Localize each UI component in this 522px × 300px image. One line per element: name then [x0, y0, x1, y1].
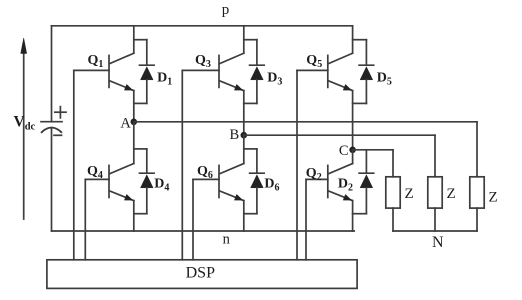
- svg-text:D2: D2: [338, 177, 353, 194]
- capacitor C top plate: [41, 121, 62, 123]
- svg-text:Z: Z: [489, 190, 498, 206]
- diode D5 triangle: [360, 67, 373, 80]
- wire Q3 gate line to DSP: [181, 70, 183, 259]
- wire D4 cathode lead: [146, 149, 148, 173]
- wire D2 anode lead: [365, 188, 367, 214]
- wire Q6 emitter to rail n: [243, 201, 245, 231]
- wire Q4 base lead: [85, 178, 109, 180]
- transistor Q5 emitter arrow: [343, 84, 351, 90]
- diode D3 cathode bar: [250, 64, 265, 66]
- wire Q6 gate line to DSP: [192, 179, 194, 259]
- transistor Q5 emitter stroke: [329, 81, 353, 91]
- capacitor plus sign vertical: [59, 107, 61, 118]
- transistor Q1 base bar: [108, 55, 110, 87]
- svg-text:Z: Z: [447, 186, 456, 202]
- diode D1 triangle: [141, 67, 154, 80]
- transistor Q5 base bar: [327, 55, 329, 87]
- node A junction dot: [131, 119, 138, 126]
- wire branch to D6: [244, 148, 257, 150]
- transistor Q4 collector stroke: [110, 164, 134, 174]
- svg-text:A: A: [120, 116, 131, 132]
- wire D6 cathode lead: [256, 149, 258, 173]
- wire D5 anode return: [353, 102, 367, 104]
- transistor Q6 emitter arrow: [234, 194, 242, 200]
- wire D3 anode lead: [256, 80, 258, 104]
- capacitor C curved bottom plate: [41, 128, 62, 133]
- wire phase A drop to load: [476, 122, 478, 177]
- wire Q1 base lead: [74, 69, 109, 71]
- transistor Q5 collector stroke: [329, 53, 353, 63]
- svg-text:p: p: [222, 2, 230, 18]
- wire phase A output: [134, 121, 477, 123]
- capacitor plus sign horizontal: [55, 111, 66, 113]
- svg-text:D5: D5: [377, 71, 392, 88]
- wire leg C drop from rail p to Q5 collector: [352, 26, 354, 53]
- svg-text:Q5: Q5: [306, 53, 322, 70]
- load Z3 (impedance): [470, 177, 484, 208]
- wire branch to D3: [244, 39, 257, 41]
- wire Q3 base lead: [182, 69, 219, 71]
- wire neutral bus N: [393, 230, 477, 232]
- load Z2 (impedance): [428, 177, 442, 208]
- wire phase B output: [244, 134, 435, 136]
- wire branch to D5: [353, 39, 367, 41]
- wire Q4 gate line to DSP: [84, 179, 86, 259]
- wire node C to Q2 collector: [352, 150, 354, 164]
- wire Q5 emitter to node C: [352, 91, 354, 150]
- transistor Q4 emitter stroke: [110, 191, 134, 200]
- transistor Q6 emitter stroke: [220, 191, 244, 200]
- diode D6 triangle: [251, 175, 264, 188]
- wire D4 anode lead: [146, 188, 148, 214]
- wire Q2 emitter to rail n: [352, 201, 354, 231]
- wire D4 anode return: [134, 213, 147, 215]
- wire Q6 base lead: [193, 178, 219, 180]
- wire Q5 gate line to DSP: [296, 70, 298, 259]
- wire left bus lower segment: [51, 128, 53, 231]
- DSP controller box: [47, 260, 357, 289]
- svg-text:D6: D6: [264, 177, 279, 194]
- wire D1 anode lead: [146, 80, 148, 104]
- wire left bus upper segment: [51, 26, 53, 122]
- transistor Q2 emitter stroke: [329, 191, 353, 200]
- wire load Z3 to neutral: [476, 208, 478, 231]
- transistor Q6 base bar: [218, 165, 220, 197]
- wire Q2 gate line to DSP: [305, 179, 307, 259]
- diode D5 cathode bar: [359, 64, 374, 66]
- diode D2 triangle: [360, 175, 373, 188]
- wire Q2 base lead: [306, 178, 328, 180]
- svg-text:Q4: Q4: [87, 164, 103, 181]
- wire D6 anode lead: [256, 188, 258, 214]
- wire node B to Q6 collector: [243, 135, 245, 163]
- transistor Q4 base bar: [108, 165, 110, 197]
- node B junction dot: [241, 132, 248, 139]
- transistor Q1 emitter stroke: [110, 81, 134, 91]
- wire branch to D4: [134, 148, 147, 150]
- wire leg A drop from rail p to Q1 collector: [133, 26, 135, 53]
- wire D5 anode lead: [365, 80, 367, 104]
- capacitor minus sign: [54, 134, 62, 136]
- wire load Z2 to neutral: [434, 208, 436, 231]
- wire leg B drop from rail p to Q3 collector: [243, 26, 245, 53]
- svg-text:Z: Z: [405, 186, 414, 202]
- wire Q4 emitter to rail n: [133, 201, 135, 231]
- wire phase C output: [353, 149, 393, 151]
- svg-text:D4: D4: [154, 177, 169, 194]
- wire phase C drop to load: [392, 150, 394, 177]
- svg-text:Q6: Q6: [197, 164, 213, 181]
- wire rail p (top DC bus): [52, 25, 353, 27]
- wire load Z1 to neutral: [392, 208, 394, 231]
- wire D1 cathode lead: [146, 40, 148, 65]
- svg-text:Q3: Q3: [195, 53, 211, 70]
- transistor Q4 emitter arrow: [124, 194, 132, 200]
- svg-text:D3: D3: [267, 71, 282, 88]
- Vdc reference arrow head: [21, 38, 27, 54]
- diode D4 cathode bar: [140, 172, 155, 174]
- transistor Q2 base bar: [327, 165, 329, 197]
- transistor Q2 emitter arrow: [343, 194, 351, 200]
- transistor Q3 emitter arrow: [234, 84, 242, 90]
- Vdc reference arrow shaft: [23, 52, 25, 219]
- node C junction dot: [349, 147, 356, 154]
- wire phase B drop to load: [434, 135, 436, 177]
- wire rail n (bottom DC bus): [52, 230, 355, 232]
- transistor Q3 emitter stroke: [220, 81, 244, 91]
- wire D5 cathode lead: [365, 40, 367, 65]
- svg-text:Vdc: Vdc: [14, 114, 36, 133]
- diode D3 triangle: [251, 67, 264, 80]
- wire Q3 emitter to node B: [243, 91, 245, 136]
- wire D3 cathode lead: [256, 40, 258, 65]
- diode D6 cathode bar: [250, 172, 265, 174]
- wire D2 cathode lead: [365, 150, 367, 173]
- wire Q5 base lead: [297, 69, 328, 71]
- svg-text:B: B: [230, 127, 240, 143]
- wire D1 anode return: [134, 102, 147, 104]
- wire Q1 emitter to node A: [133, 91, 135, 122]
- transistor Q1 emitter arrow: [124, 84, 132, 90]
- svg-text:Q1: Q1: [88, 53, 104, 70]
- svg-text:C: C: [339, 143, 349, 159]
- transistor Q3 base bar: [218, 55, 220, 87]
- load Z1 (impedance): [386, 177, 400, 208]
- diode D2 cathode bar: [359, 172, 374, 174]
- transistor Q2 collector stroke: [329, 164, 353, 174]
- transistor Q3 collector stroke: [220, 53, 244, 63]
- svg-text:DSP: DSP: [186, 265, 215, 282]
- wire node A to Q4 collector: [133, 122, 135, 164]
- wire D6 anode return: [244, 213, 257, 215]
- transistor Q6 collector stroke: [220, 164, 244, 174]
- wire branch to D1: [134, 39, 147, 41]
- diode D1 cathode bar: [140, 64, 155, 66]
- svg-text:D1: D1: [157, 71, 172, 88]
- wire D3 anode return: [244, 102, 257, 104]
- diode D4 triangle: [141, 175, 154, 188]
- svg-text:n: n: [223, 232, 231, 248]
- svg-text:Q2: Q2: [306, 166, 322, 183]
- transistor Q1 collector stroke: [110, 53, 134, 63]
- svg-text:N: N: [432, 234, 444, 251]
- wire Q1 gate line to DSP: [73, 70, 75, 259]
- wire D2 anode return: [353, 213, 367, 215]
